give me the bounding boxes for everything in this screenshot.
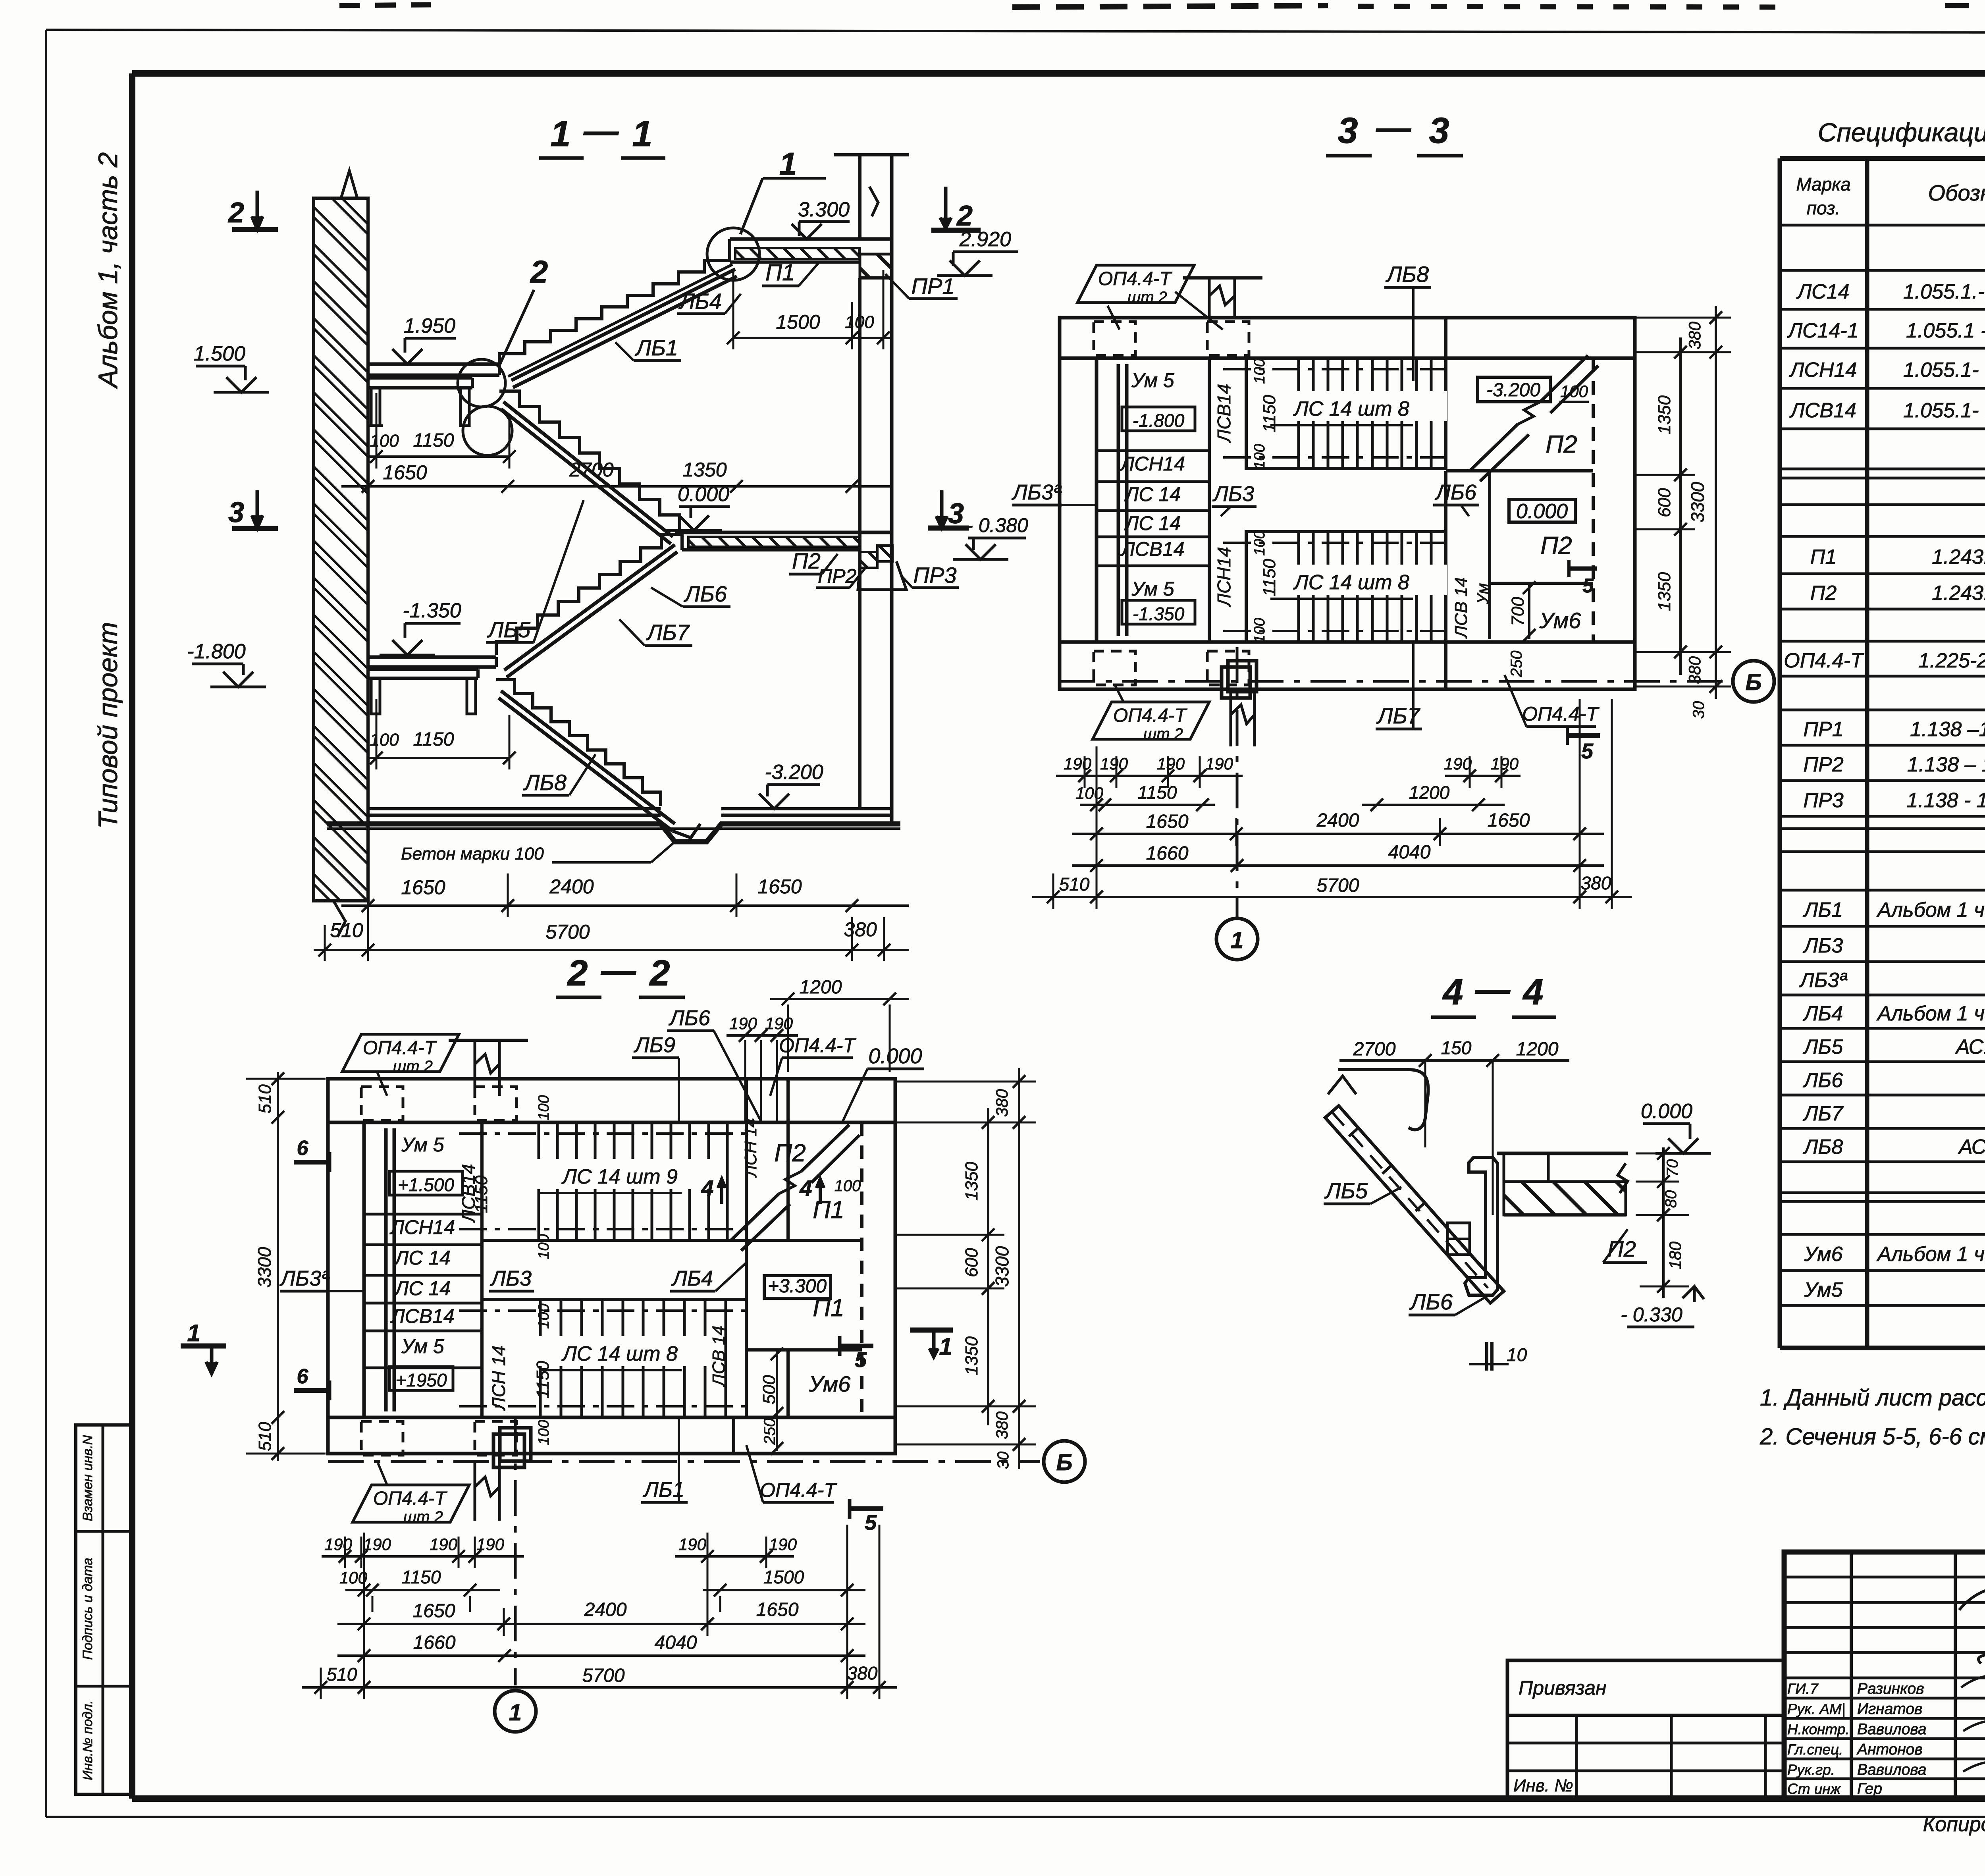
svg-text:—: — <box>583 111 619 150</box>
svg-text:ЛСВ 14: ЛСВ 14 <box>1451 577 1471 639</box>
svg-text:5700: 5700 <box>545 921 590 943</box>
svg-text:ЛСН 14: ЛСН 14 <box>488 1346 509 1411</box>
svg-text:2: 2 <box>649 953 670 993</box>
svg-text:ЛСВ 14: ЛСВ 14 <box>709 1326 728 1387</box>
lintel ПР1 hatched <box>860 254 892 278</box>
svg-text:0.000: 0.000 <box>868 1044 922 1068</box>
svg-text:Рук.гр.: Рук.гр. <box>1787 1762 1835 1778</box>
title block outer <box>1784 1552 1985 1799</box>
svg-text:100: 100 <box>1251 530 1268 555</box>
svg-text:ЛСН14: ЛСН14 <box>1214 547 1234 607</box>
svg-text:510: 510 <box>330 919 363 941</box>
svg-text:ЛС 14 шт 8: ЛС 14 шт 8 <box>561 1342 678 1365</box>
svg-text:190: 190 <box>476 1535 505 1554</box>
svg-text:ПР2: ПР2 <box>1803 753 1843 776</box>
svg-text:ОП4.4-Т: ОП4.4-Т <box>779 1034 856 1057</box>
svg-text:Разинков: Разинков <box>1857 1680 1924 1697</box>
svg-text:Антонов: Антонов <box>1856 1741 1923 1758</box>
title block left grid <box>1784 1576 1985 1579</box>
svg-text:5700: 5700 <box>1317 875 1359 896</box>
svg-text:поз.: поз. <box>1807 198 1840 218</box>
svg-text:1.055.1- 1.06.0.0-02: 1.055.1- 1.06.0.0-02 <box>1903 399 1985 422</box>
svg-text:1.225-211- 4.000: 1.225-211- 4.000 <box>1918 649 1985 672</box>
svg-text:Б: Б <box>1745 669 1761 695</box>
svg-text:ЛБ6: ЛБ6 <box>684 581 727 606</box>
svg-text:5: 5 <box>855 1348 867 1372</box>
svg-text:шт 2: шт 2 <box>1143 725 1183 743</box>
svg-text:190: 190 <box>769 1535 797 1554</box>
signatures squiggles <box>1959 1588 1985 1664</box>
plan 3-3: landing edge beams <box>1117 364 1120 636</box>
bottom dim rows 2-2 <box>322 1555 524 1558</box>
svg-text:—: — <box>1376 108 1411 147</box>
svg-text:ЛБ1: ЛБ1 <box>635 335 678 360</box>
flight ЛБ1 beam <box>511 269 735 380</box>
svg-text:4: 4 <box>701 1176 713 1201</box>
svg-text:ЛБ1: ЛБ1 <box>1803 898 1843 922</box>
svg-text:-1.800: -1.800 <box>187 640 246 663</box>
svg-text:ЛБ4: ЛБ4 <box>671 1267 713 1290</box>
section flag 5 bottom right <box>1567 733 1600 738</box>
svg-text:Альбом 1, часть 2: Альбом 1, часть 2 <box>93 152 123 389</box>
svg-text:ОП4.4-Т: ОП4.4-Т <box>1113 705 1188 726</box>
svg-text:Вавилова: Вавилова <box>1857 1761 1927 1778</box>
svg-text:1350: 1350 <box>962 1162 981 1201</box>
landing -1.350 slabs <box>368 656 496 659</box>
label ОП4.4-Т шт2 top left <box>342 1034 459 1072</box>
svg-text:100: 100 <box>834 1177 861 1195</box>
svg-text:380: 380 <box>847 1663 878 1683</box>
svg-text:3: 3 <box>1337 110 1358 151</box>
svg-text:Ум5: Ум5 <box>1804 1278 1843 1301</box>
specification table grid <box>1780 225 1985 1305</box>
plan 3-3: outer walls <box>1060 318 1635 689</box>
svg-text:5: 5 <box>1581 739 1594 763</box>
svg-text:Копировал: Рулькова: Копировал: Рулькова <box>1923 1813 1985 1836</box>
right dim chain 2-2 <box>987 1108 989 1425</box>
svg-text:1660: 1660 <box>1146 843 1189 864</box>
svg-text:- 0.330: - 0.330 <box>1621 1303 1682 1326</box>
svg-text:Б: Б <box>1056 1450 1072 1475</box>
svg-text:3300: 3300 <box>254 1247 275 1288</box>
svg-text:600: 600 <box>962 1248 981 1277</box>
svg-text:—: — <box>601 951 636 990</box>
right wall column <box>858 155 861 239</box>
svg-text:1500: 1500 <box>763 1567 804 1587</box>
landing 1.950 slabs <box>368 362 499 366</box>
plan 2-2: upper flight treads <box>482 1122 746 1240</box>
svg-text:1350: 1350 <box>682 459 727 481</box>
svg-text:100: 100 <box>1251 359 1268 384</box>
svg-text:Марка: Марка <box>1796 174 1850 195</box>
svg-text:ПР2: ПР2 <box>818 565 857 587</box>
svg-text:1.055.1.-103. 0,0-02: 1.055.1.-103. 0,0-02 <box>1903 280 1985 303</box>
svg-text:ЛБ5: ЛБ5 <box>1324 1178 1368 1203</box>
wall break symbol top 3-3 <box>1209 278 1235 318</box>
svg-text:Привязан: Привязан <box>1519 1677 1607 1699</box>
svg-text:1650: 1650 <box>413 1600 455 1621</box>
svg-text:ЛБ3: ЛБ3 <box>1803 934 1843 957</box>
svg-text:1500: 1500 <box>776 311 820 333</box>
svg-text:700: 700 <box>1508 597 1528 626</box>
svg-text:1: 1 <box>1231 927 1243 953</box>
plan 2-2: left landing rows <box>480 1122 484 1417</box>
svg-text:—: — <box>1475 970 1511 1009</box>
upper stringer hook <box>1338 1070 1428 1130</box>
plan 3-3: upper flight treads <box>1246 358 1446 469</box>
svg-text:ЛСН 14: ЛСН 14 <box>741 1118 760 1178</box>
svg-text:ЛСН14: ЛСН14 <box>1789 359 1857 382</box>
svg-text:-3.200: -3.200 <box>765 761 823 784</box>
svg-text:100: 100 <box>1075 784 1104 802</box>
wall break top right <box>869 187 878 216</box>
svg-text:ЛСВ14: ЛСВ14 <box>390 1305 454 1327</box>
wall break symbol bottom 3-3 <box>1231 689 1255 746</box>
svg-text:1.138 –103. 20000: 1.138 –103. 20000 <box>1910 718 1985 741</box>
svg-text:4: 4 <box>1442 972 1463 1012</box>
svg-text:100: 100 <box>1560 382 1588 401</box>
svg-text:1.500: 1.500 <box>194 342 245 365</box>
dim 500/250 vertical <box>776 1350 778 1451</box>
svg-text:ЛБ3: ЛБ3 <box>490 1267 532 1290</box>
svg-text:1: 1 <box>632 114 652 154</box>
svg-text:600: 600 <box>1655 488 1674 517</box>
svg-text:6: 6 <box>297 1137 309 1160</box>
svg-text:+1.500: +1.500 <box>398 1174 454 1195</box>
svg-text:1150: 1150 <box>413 729 454 750</box>
svg-text:4040: 4040 <box>655 1632 697 1653</box>
wall break bottom <box>333 901 345 937</box>
svg-text:1650: 1650 <box>383 461 427 484</box>
svg-text:ПР1: ПР1 <box>1803 718 1843 741</box>
wall (hatched) <box>314 198 368 901</box>
section flag 5 right <box>840 1344 873 1348</box>
svg-text:4040: 4040 <box>1388 842 1431 863</box>
wall break symbol top 2-2 <box>475 1040 499 1096</box>
svg-text:1: 1 <box>939 1333 952 1360</box>
svg-text:АС1 - 24: АС1 - 24 <box>1955 1035 1985 1059</box>
axis Б dash-dot + circle <box>1060 680 1731 683</box>
svg-text:2400: 2400 <box>549 875 594 898</box>
svg-text:1150: 1150 <box>1260 395 1279 432</box>
svg-text:2. Сечения 5-5, 6-6 см. л.: 2. Сечения 5-5, 6-6 см. л. АС-44 альбам … <box>1760 1424 1985 1450</box>
svg-text:Игнатов: Игнатов <box>1857 1701 1922 1718</box>
flight ЛБ7 steps (lower middle) <box>496 534 682 655</box>
svg-text:ЛБ4: ЛБ4 <box>1803 1002 1843 1025</box>
svg-text:ЛС 14 шт 8: ЛС 14 шт 8 <box>1293 571 1409 594</box>
svg-text:Альбом 1 часть 1 АС-46: Альбом 1 часть 1 АС-46 <box>1876 1002 1985 1025</box>
svg-text:6: 6 <box>297 1365 309 1388</box>
svg-text:П1: П1 <box>765 260 795 285</box>
svg-text:ЛС 14: ЛС 14 <box>1124 512 1181 534</box>
svg-text:380: 380 <box>992 1089 1011 1117</box>
svg-text:Ум 5: Ум 5 <box>401 1335 444 1357</box>
plan 2-2: inner wall lines <box>328 1121 895 1124</box>
svg-text:АС1- 24: АС1- 24 <box>1958 1136 1985 1159</box>
П2 landing slab (0.000) <box>675 531 892 534</box>
svg-text:ЛСВ14: ЛСВ14 <box>1214 384 1234 443</box>
svg-text:4: 4 <box>799 1176 812 1201</box>
svg-text:380: 380 <box>1685 656 1704 684</box>
svg-text:1350: 1350 <box>962 1336 981 1375</box>
lower bracket <box>371 678 380 714</box>
svg-text:П2: П2 <box>1540 532 1572 559</box>
svg-text:3: 3 <box>948 498 964 530</box>
svg-text:ГИ.7: ГИ.7 <box>1787 1681 1819 1697</box>
svg-text:1.243.1-4-200: 1.243.1-4-200 <box>1932 582 1985 605</box>
svg-text:1150: 1150 <box>1260 559 1279 596</box>
svg-text:510: 510 <box>327 1664 357 1685</box>
svg-text:1650: 1650 <box>1488 810 1530 831</box>
svg-text:ОП4.4-Т: ОП4.4-Т <box>760 1479 837 1501</box>
flight ЛБ5 steps (middle) <box>499 391 680 530</box>
3-3 right landing inner lines <box>1446 469 1593 472</box>
svg-text:190: 190 <box>765 1014 793 1033</box>
axis column square <box>1228 661 1257 692</box>
svg-text:1650: 1650 <box>401 876 445 898</box>
svg-text:1150: 1150 <box>413 430 454 451</box>
svg-text:1. Данный лист рассматриват: 1. Данный лист рассматривать совместно с… <box>1760 1385 1985 1411</box>
svg-text:100: 100 <box>536 1420 552 1445</box>
plan 3-3: left landing rows <box>1208 358 1211 642</box>
svg-text:5: 5 <box>865 1511 877 1535</box>
svg-text:1350: 1350 <box>1655 395 1674 434</box>
svg-text:ПР3: ПР3 <box>913 563 956 588</box>
svg-text:2: 2 <box>530 254 548 289</box>
svg-text:Бетон марки 100: Бетон марки 100 <box>401 844 544 864</box>
svg-text:100: 100 <box>1251 618 1268 643</box>
ЛБ7 beam <box>504 545 675 670</box>
svg-text:2700: 2700 <box>1353 1039 1396 1060</box>
left margin small table <box>76 1425 132 1794</box>
svg-text:190: 190 <box>678 1535 707 1554</box>
svg-text:5: 5 <box>1582 575 1594 597</box>
svg-text:190: 190 <box>1064 754 1092 773</box>
axis Б 2-2 <box>328 1460 1040 1463</box>
П2 slab hatched (4-4) <box>1497 1152 1628 1155</box>
svg-text:2400: 2400 <box>1316 810 1359 831</box>
svg-text:Обозначение: Обозначение <box>1928 180 1985 205</box>
svg-text:1350: 1350 <box>1655 572 1674 611</box>
svg-text:1.055.1- 1.09.0.0-02: 1.055.1- 1.09.0.0-02 <box>1903 359 1985 382</box>
svg-text:190: 190 <box>1205 754 1233 773</box>
floor slab lines bottom <box>368 807 661 810</box>
svg-text:2700: 2700 <box>569 459 613 481</box>
svg-text:ЛС14: ЛС14 <box>1796 280 1849 303</box>
svg-text:-1.350: -1.350 <box>1133 603 1185 624</box>
svg-text:380: 380 <box>1685 321 1704 349</box>
svg-text:4: 4 <box>1522 972 1543 1012</box>
svg-text:2400: 2400 <box>584 1599 627 1620</box>
svg-text:ЛС 14: ЛС 14 <box>394 1247 451 1269</box>
svg-text:Ст инж: Ст инж <box>1787 1781 1841 1797</box>
svg-text:1200: 1200 <box>800 977 842 998</box>
svg-text:1150: 1150 <box>1138 782 1177 803</box>
П1 landing slab (3.300) <box>730 237 892 241</box>
svg-text:П2: П2 <box>1546 431 1577 458</box>
svg-text:ЛСН14: ЛСН14 <box>1120 453 1185 475</box>
svg-text:5700: 5700 <box>582 1665 625 1686</box>
svg-text:-1.350: -1.350 <box>403 599 461 622</box>
svg-text:1.055.1 -104.0.0-02: 1.055.1 -104.0.0-02 <box>1906 319 1985 342</box>
svg-text:190: 190 <box>1157 754 1185 773</box>
label ОП4.4-Т шт 2 (bottom left) <box>1093 702 1209 739</box>
svg-text:шт 2: шт 2 <box>393 1058 433 1075</box>
break marks slab <box>1618 1163 1628 1193</box>
svg-text:Взамен инв.N: Взамен инв.N <box>80 1435 95 1521</box>
svg-text:ЛБ8: ЛБ8 <box>1803 1136 1843 1159</box>
svg-text:100: 100 <box>1251 444 1268 469</box>
svg-text:-3.200: -3.200 <box>1486 380 1540 401</box>
concrete base line <box>327 824 900 842</box>
svg-text:ЛБ6: ЛБ6 <box>1803 1069 1843 1092</box>
dim ticks right 4-4 <box>1662 1147 1665 1298</box>
svg-text:ЛБ3ª: ЛБ3ª <box>279 1267 330 1290</box>
svg-text:1650: 1650 <box>1146 811 1189 832</box>
svg-text:100: 100 <box>370 431 399 451</box>
section flags 6 left <box>294 1160 330 1165</box>
svg-text:Рук. АМ|: Рук. АМ| <box>1787 1701 1845 1717</box>
svg-text:70: 70 <box>1664 1159 1681 1177</box>
svg-text:30: 30 <box>1690 701 1707 719</box>
channel beam ЛБ6 C-profile <box>1465 1157 1497 1295</box>
plan 2-2: diagonal break line through landing slabs <box>731 1194 779 1241</box>
svg-text:Инв. №: Инв. № <box>1513 1776 1573 1795</box>
svg-text:100: 100 <box>536 1095 552 1120</box>
ЛБ8 beam with foot <box>501 691 675 824</box>
svg-text:П2: П2 <box>1810 582 1837 605</box>
svg-text:3: 3 <box>228 497 244 528</box>
svg-text:100: 100 <box>536 1234 552 1259</box>
svg-text:ОП4.4-Т: ОП4.4-Т <box>1784 649 1864 672</box>
svg-text:Типовой проект: Типовой проект <box>93 622 123 829</box>
section flags 1 left/right <box>181 1344 226 1349</box>
svg-text:3.300: 3.300 <box>798 198 850 221</box>
svg-text:3300: 3300 <box>1687 482 1708 523</box>
svg-text:190: 190 <box>324 1535 353 1554</box>
svg-text:Альбом 1 часть 1 АС-44: Альбом 1 часть 1 АС-44 <box>1876 1243 1985 1266</box>
svg-text:ЛБ5: ЛБ5 <box>1803 1035 1843 1059</box>
scan noise dashes top edge <box>339 5 431 6</box>
svg-text:Н.контр.: Н.контр. <box>1787 1721 1850 1737</box>
svg-text:ПР1: ПР1 <box>911 274 954 299</box>
svg-text:100: 100 <box>536 1303 552 1328</box>
svg-text:ЛБ6: ЛБ6 <box>1435 480 1477 504</box>
svg-text:10: 10 <box>1507 1344 1527 1365</box>
svg-text:П1: П1 <box>1810 546 1837 569</box>
svg-text:190: 190 <box>1444 754 1472 773</box>
svg-text:ЛС 14: ЛС 14 <box>1124 483 1181 505</box>
extension verticals bottom 3-3 <box>1096 746 1098 909</box>
svg-text:ЛС14-1: ЛС14-1 <box>1787 319 1858 342</box>
svg-text:1200: 1200 <box>1516 1039 1559 1060</box>
svg-text:1: 1 <box>509 1700 522 1726</box>
privyazan sub-table <box>1507 1660 1784 1799</box>
svg-text:ЛСВ14: ЛСВ14 <box>1789 399 1856 422</box>
svg-text:510: 510 <box>1059 874 1090 895</box>
svg-text:+1950: +1950 <box>395 1370 447 1390</box>
svg-text:3: 3 <box>1429 110 1449 151</box>
svg-text:Спецификация к схеме располо: Спецификация к схеме расположения лестни… <box>1818 118 1985 147</box>
svg-text:ЛБ3: ЛБ3 <box>1212 482 1254 506</box>
detail circle node 1 + label <box>707 228 759 280</box>
svg-text:ЛБ8: ЛБ8 <box>1386 262 1429 287</box>
ЛБ5 beam <box>503 402 673 537</box>
svg-text:Инв.№ подл.: Инв.№ подл. <box>80 1700 95 1780</box>
plan 3-3: inner wall lines <box>1060 357 1635 360</box>
svg-text:380: 380 <box>844 918 877 941</box>
svg-text:380: 380 <box>992 1411 1011 1439</box>
svg-text:-1.800: -1.800 <box>1133 410 1185 431</box>
svg-text:1200: 1200 <box>1409 782 1450 803</box>
svg-text:1: 1 <box>550 114 570 154</box>
svg-text:+3.300: +3.300 <box>768 1276 827 1297</box>
plan 2-2: dashed anchor plates <box>361 1087 403 1120</box>
svg-text:П2: П2 <box>792 548 821 573</box>
svg-text:ЛСВ14: ЛСВ14 <box>1120 538 1184 560</box>
svg-text:1.138 - 10.1 200 00: 1.138 - 10.1 200 00 <box>1906 789 1985 812</box>
svg-text:Ум6: Ум6 <box>1804 1243 1842 1266</box>
svg-text:шт 2: шт 2 <box>1127 289 1167 306</box>
svg-text:П2: П2 <box>774 1139 806 1167</box>
svg-text:1150: 1150 <box>472 1175 491 1213</box>
svg-text:ЛБ5: ЛБ5 <box>487 617 531 642</box>
svg-text:1.950: 1.950 <box>404 314 455 337</box>
axis 1 dash-dot + circle <box>1236 647 1239 917</box>
section flag 5 in П2 <box>1569 567 1597 571</box>
svg-text:Ум 5: Ум 5 <box>1131 578 1174 600</box>
svg-text:- 0.380: - 0.380 <box>966 514 1028 536</box>
svg-text:1.243.1-4-200: 1.243.1-4-200 <box>1932 546 1985 569</box>
svg-text:Гл.спец.: Гл.спец. <box>1787 1741 1843 1758</box>
svg-text:1150: 1150 <box>533 1361 553 1398</box>
svg-text:ЛБ3ª: ЛБ3ª <box>1012 480 1062 504</box>
svg-text:2: 2 <box>227 197 244 229</box>
svg-text:510: 510 <box>255 1084 275 1114</box>
svg-text:180: 180 <box>1666 1241 1684 1269</box>
svg-text:ОП4.4-Т: ОП4.4-Т <box>363 1037 437 1059</box>
svg-text:ОП4.4-Т: ОП4.4-Т <box>373 1488 448 1509</box>
svg-text:ЛБ6: ЛБ6 <box>669 1006 711 1030</box>
lintel ПР3 hatched + footing <box>877 546 892 561</box>
svg-text:510: 510 <box>255 1422 275 1451</box>
svg-text:190: 190 <box>363 1535 391 1554</box>
svg-text:1650: 1650 <box>756 1599 799 1620</box>
svg-text:3300: 3300 <box>992 1246 1012 1287</box>
svg-text:ЛБ6: ЛБ6 <box>1409 1289 1453 1314</box>
inner thick drawing frame <box>132 70 1985 77</box>
svg-text:Альбом 1 часть 1 АС-46: Альбом 1 часть 1 АС-46 <box>1876 898 1985 922</box>
lintel ПР2 hatched <box>860 552 877 568</box>
svg-text:ОП4.4-Т: ОП4.4-Т <box>1098 268 1173 289</box>
svg-text:0.000: 0.000 <box>1641 1100 1692 1123</box>
svg-text:ПР3: ПР3 <box>1803 789 1843 812</box>
right dim chain 3-3 <box>1679 337 1682 675</box>
svg-text:шт 2: шт 2 <box>403 1508 443 1526</box>
svg-text:ЛБ4: ЛБ4 <box>678 289 722 314</box>
left dim chain 2-2 <box>277 1072 279 1461</box>
svg-text:150: 150 <box>1441 1037 1472 1058</box>
svg-text:ЛБ9: ЛБ9 <box>634 1033 675 1057</box>
extension verticals 2-2 bottom <box>363 1533 365 1699</box>
svg-text:190: 190 <box>729 1014 757 1033</box>
wall break bottom 2-2 <box>475 1461 499 1521</box>
svg-text:190: 190 <box>1491 754 1519 773</box>
svg-text:80: 80 <box>1662 1190 1680 1208</box>
svg-text:1.138 – 10.1 60000: 1.138 – 10.1 60000 <box>1907 753 1985 776</box>
svg-text:0.000: 0.000 <box>1516 500 1568 523</box>
svg-text:Ум 5: Ум 5 <box>401 1134 444 1156</box>
